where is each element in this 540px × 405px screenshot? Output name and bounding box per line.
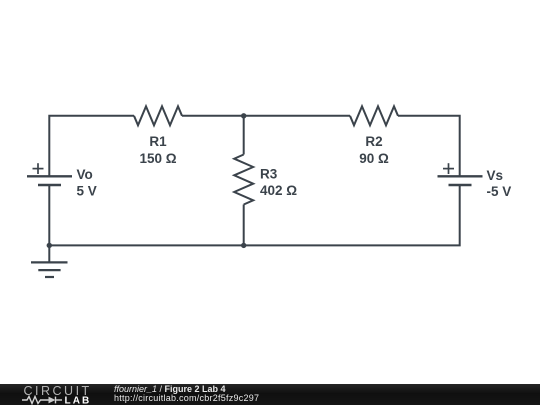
junction dot ground node (47, 243, 52, 248)
svg-text:402 Ω: 402 Ω (260, 183, 297, 198)
footer text line 1: author / title (114, 385, 226, 395)
ground symbol (31, 262, 68, 277)
wire ground stem (48, 245, 50, 262)
wire top-right (R2 to Vs top) (398, 116, 460, 177)
resistor R1 (134, 106, 182, 125)
wire top-left (Vo top to R1) (49, 116, 134, 177)
wire right-lower and bottom rail (Vs bottom to ground node) (49, 185, 459, 246)
label R1 (77, 134, 512, 199)
wire R3 bottom lead (243, 205, 245, 246)
svg-text:5 V: 5 V (77, 183, 97, 198)
voltage source V2 (Vs) battery plates (438, 176, 483, 185)
wire top-middle (R1 to R2 through node A) (182, 115, 350, 117)
wire left-lower (bottom rail to Vo bottom) (48, 185, 50, 246)
node A junction dot (R1/R2/R3) (241, 113, 246, 118)
svg-text:90 Ω: 90 Ω (359, 151, 389, 166)
svg-text:150 Ω: 150 Ω (139, 151, 176, 166)
svg-text:R3: R3 (260, 167, 278, 182)
logo resistor-diode mark (22, 397, 62, 404)
svg-text:LAB: LAB (65, 396, 92, 405)
svg-text:-5 V: -5 V (487, 184, 512, 199)
svg-text:Vs: Vs (487, 168, 504, 183)
svg-text:R1: R1 (149, 134, 167, 149)
wire R3 top lead (243, 116, 245, 155)
footer text line 2: url (114, 394, 259, 404)
Vs plus sign (443, 163, 454, 174)
CircuitLab logo (0, 384, 110, 405)
Vo plus sign (33, 163, 44, 174)
resistor R3 (234, 155, 253, 205)
svg-text:Vo: Vo (77, 167, 93, 182)
resistor R2 (350, 106, 398, 125)
voltage source V1 (Vo) battery plates (27, 176, 72, 185)
svg-text:R2: R2 (365, 134, 382, 149)
junction dot R3 bottom node (241, 243, 246, 248)
footer bar (0, 384, 540, 405)
